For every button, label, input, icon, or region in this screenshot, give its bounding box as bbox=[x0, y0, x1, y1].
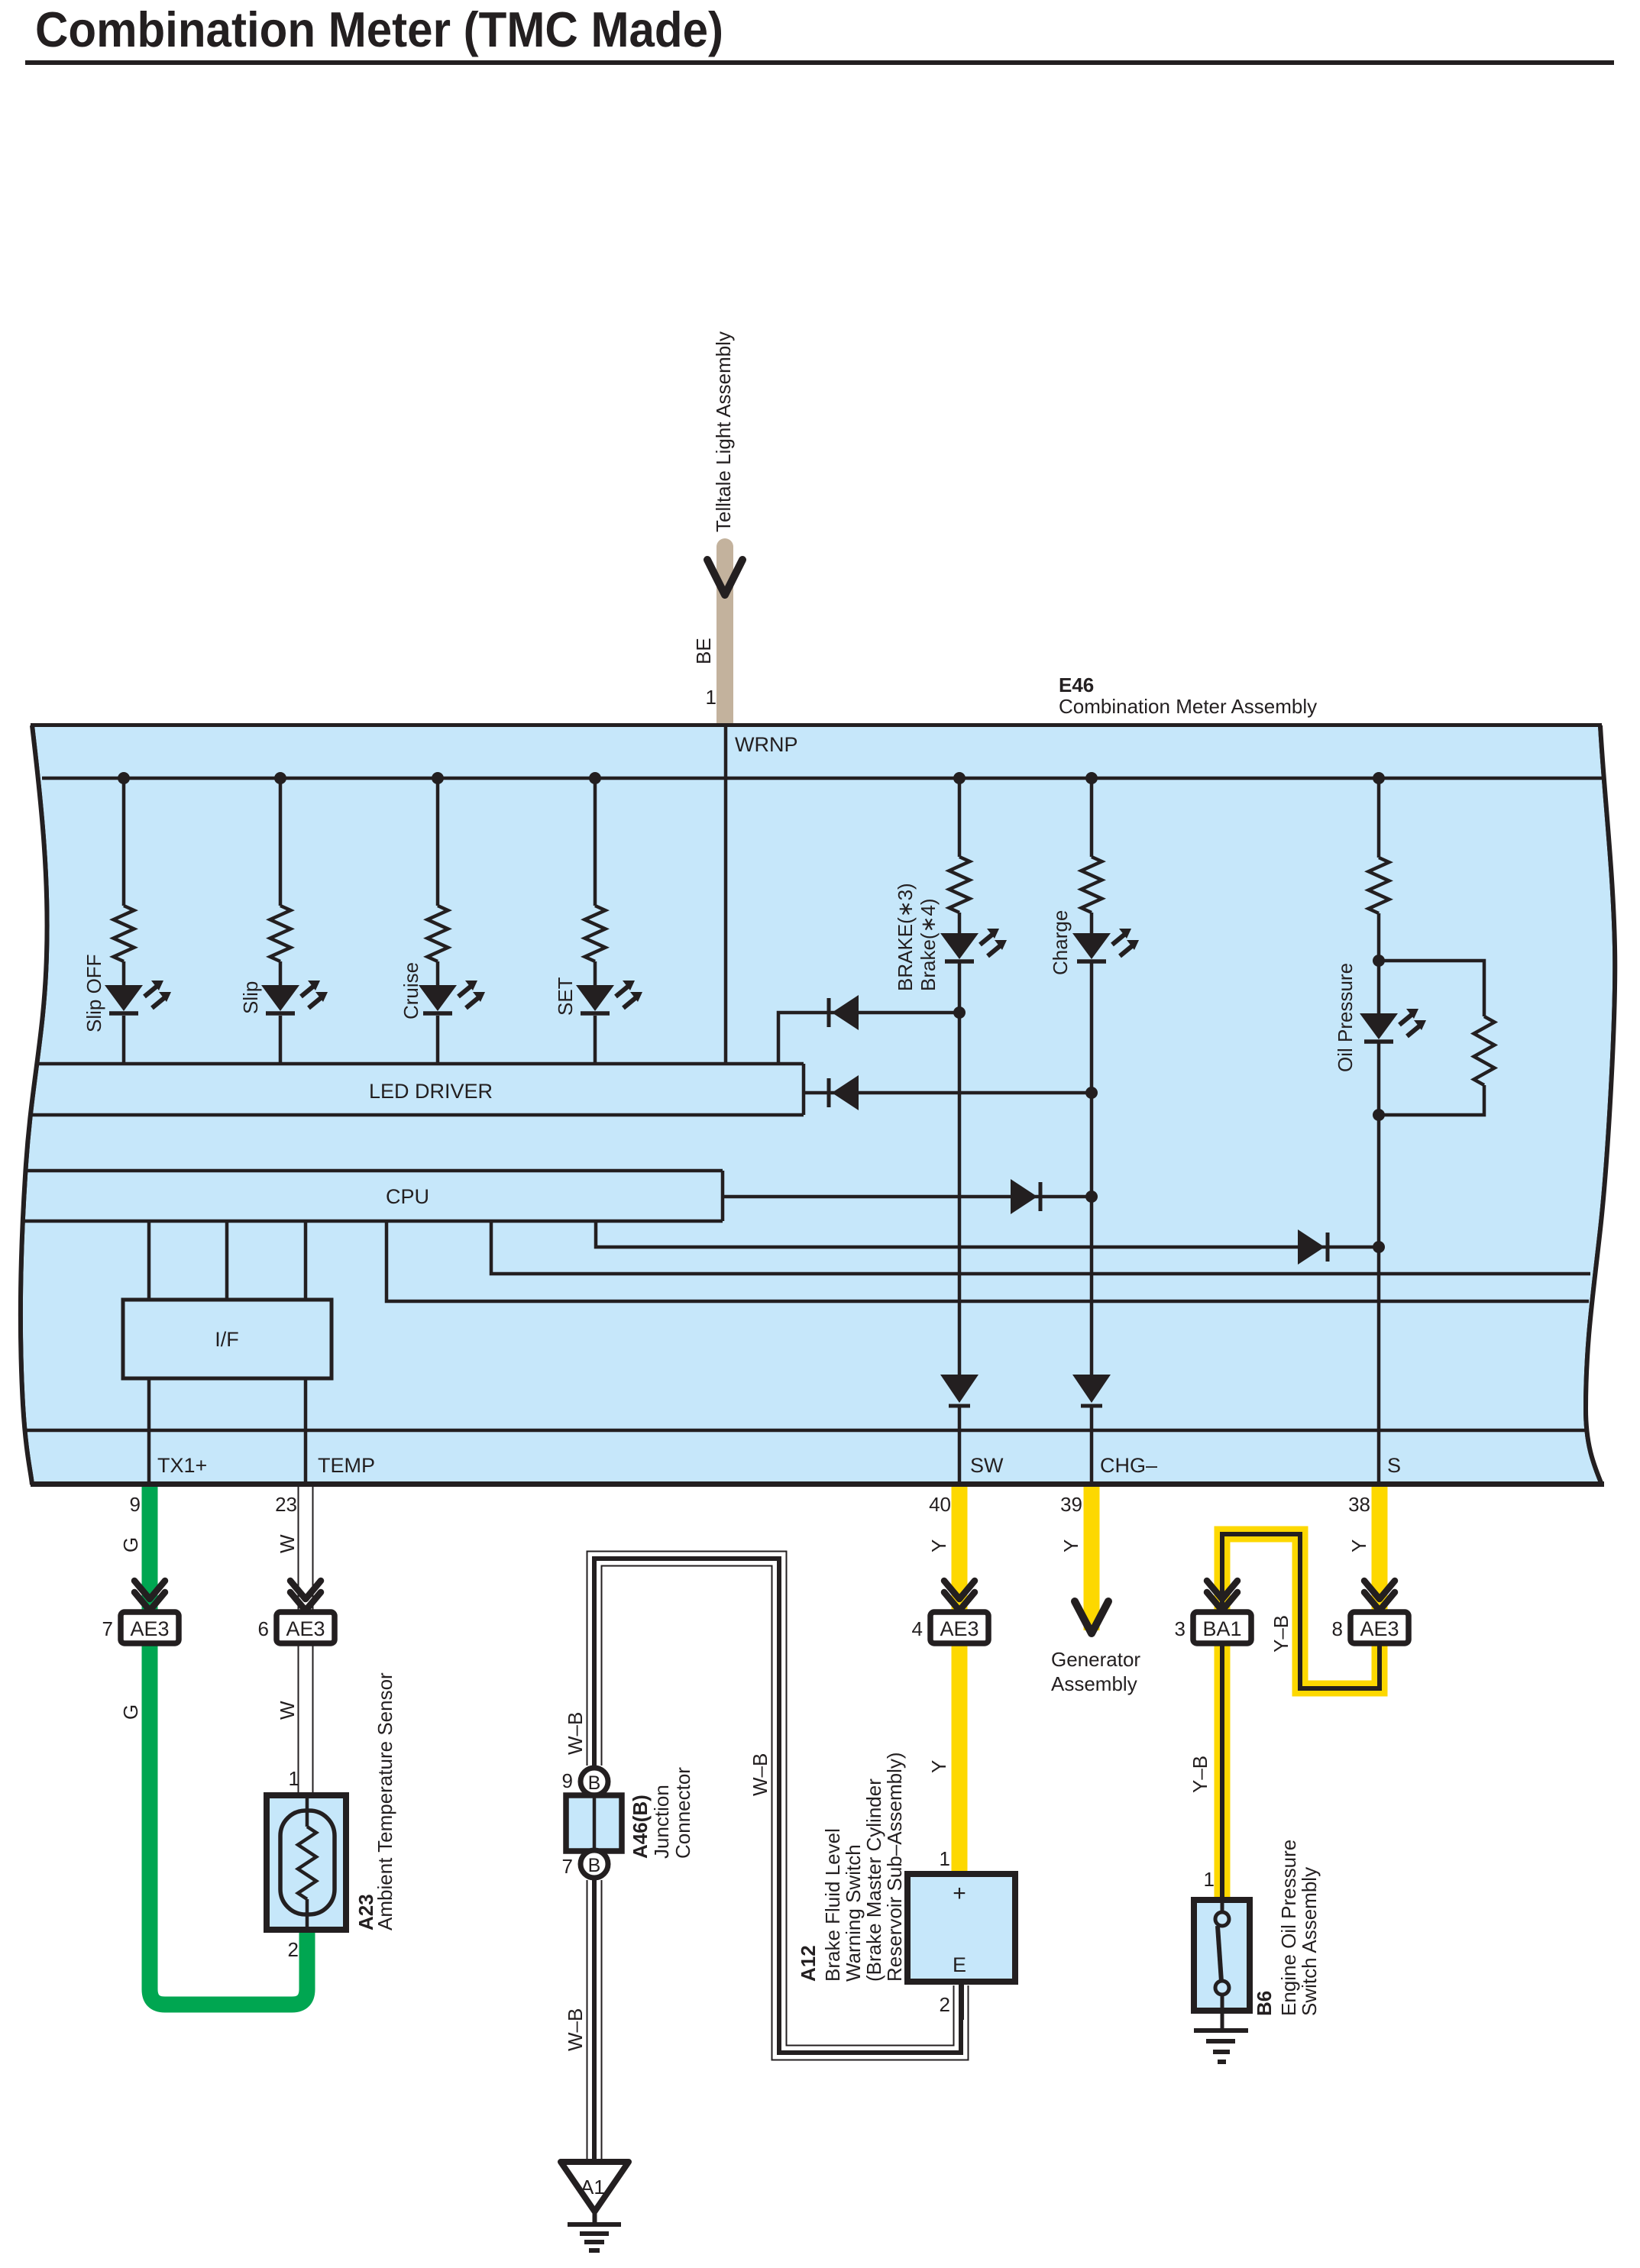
Y-B wire AE3(8) to BA1(3): yellow band bbox=[1222, 1534, 1380, 1688]
connector pass-through chevrons (Y-B BA1 wire) bbox=[1207, 1581, 1237, 1599]
svg-text:S: S bbox=[1387, 1454, 1401, 1477]
svg-text:39: 39 bbox=[1060, 1493, 1082, 1516]
svg-text:Connector: Connector bbox=[671, 1767, 694, 1859]
junction connector A46(B) body bbox=[566, 1795, 622, 1851]
svg-text:1: 1 bbox=[706, 686, 716, 709]
connector AE3 pin6 bbox=[277, 1612, 335, 1643]
diode D3 bbox=[1039, 1182, 1043, 1211]
resistor Charge bbox=[1082, 857, 1102, 913]
svg-text:AE3: AE3 bbox=[940, 1617, 979, 1640]
page-edge trim left bbox=[0, 726, 47, 1484]
resistor Oil Pressure (series) bbox=[1369, 858, 1389, 913]
Y wire from SW to A12 bbox=[952, 1487, 968, 1874]
svg-text:SET: SET bbox=[554, 977, 577, 1016]
A23 ambient temperature sensor box bbox=[267, 1795, 346, 1930]
svg-text:Slip OFF: Slip OFF bbox=[82, 954, 105, 1032]
WRNP vertical wire bbox=[724, 727, 728, 1064]
title underline bbox=[25, 60, 1614, 65]
Y wire from CHG- to generator bbox=[1084, 1487, 1100, 1630]
svg-text:Cruise: Cruise bbox=[399, 962, 422, 1019]
CPU block bbox=[21, 1171, 723, 1221]
A12 brake fluid level warning switch box bbox=[907, 1874, 1015, 1982]
svg-text:I/F: I/F bbox=[215, 1328, 239, 1351]
resistor Slip bbox=[270, 906, 291, 961]
B6 switch lever bbox=[1218, 1926, 1221, 1982]
svg-text:40: 40 bbox=[929, 1493, 951, 1516]
svg-text:Slip: Slip bbox=[239, 981, 262, 1014]
junction dot on bus at BRAKE bbox=[953, 772, 966, 784]
svg-text:38: 38 bbox=[1348, 1493, 1370, 1516]
W-B wire loop: white core bbox=[594, 1559, 961, 2053]
warning lamp branch Slip: wires bbox=[279, 778, 283, 906]
svg-text:SW: SW bbox=[970, 1454, 1004, 1477]
diode D1 bbox=[827, 998, 831, 1027]
svg-text:Combination Meter (TMC Made): Combination Meter (TMC Made) bbox=[35, 2, 723, 57]
W-B wire loop: black stripe bbox=[594, 1559, 961, 2053]
svg-text:AE3: AE3 bbox=[1360, 1617, 1399, 1640]
svg-text:Generator: Generator bbox=[1051, 1648, 1140, 1671]
svg-text:B6: B6 bbox=[1253, 1991, 1276, 2016]
svg-text:1: 1 bbox=[1204, 1868, 1215, 1891]
LED DRIVER block bbox=[23, 1064, 804, 1115]
connector AE3 pin4 bbox=[930, 1612, 988, 1643]
svg-text:Y: Y bbox=[1059, 1539, 1082, 1552]
svg-text:CHG–: CHG– bbox=[1100, 1454, 1157, 1477]
svg-text:A12: A12 bbox=[797, 1945, 820, 1982]
box bottom edge bbox=[31, 1481, 1604, 1487]
wire CPU to I/F pin2 bbox=[225, 1221, 229, 1300]
svg-text:W–B: W–B bbox=[564, 1712, 587, 1755]
LED Slip bbox=[261, 985, 299, 1011]
svg-text:7: 7 bbox=[562, 1855, 573, 1878]
LED SET bbox=[576, 985, 614, 1011]
svg-text:(Brake Master Cylinder: (Brake Master Cylinder bbox=[862, 1779, 885, 1982]
svg-text:TEMP: TEMP bbox=[318, 1454, 375, 1477]
svg-text:9: 9 bbox=[130, 1493, 141, 1516]
warning lamp branch Oil Pressure: wires bbox=[1377, 778, 1381, 858]
warning lamp branch Slip OFF: wires bbox=[122, 778, 126, 906]
connector pass-through chevrons (Y SW wire) bbox=[944, 1581, 975, 1599]
ground A1 stem bbox=[593, 2211, 597, 2224]
svg-text:Assembly: Assembly bbox=[1051, 1672, 1137, 1695]
svg-text:Brake Fluid Level: Brake Fluid Level bbox=[821, 1828, 844, 1982]
box right curved edge bbox=[1586, 725, 1615, 1485]
svg-text:8: 8 bbox=[1332, 1617, 1343, 1640]
svg-text:Switch Assembly: Switch Assembly bbox=[1298, 1867, 1321, 2016]
svg-text:2: 2 bbox=[288, 1938, 299, 1961]
LED BRAKE bbox=[940, 933, 979, 959]
Y-B wire BA1(3) to B6: black stripe bbox=[1220, 1643, 1224, 1900]
A23 capsule bbox=[280, 1811, 335, 1914]
svg-text:W: W bbox=[276, 1701, 299, 1720]
svg-text:CPU: CPU bbox=[386, 1185, 429, 1208]
svg-text:Ambient Temperature Sensor: Ambient Temperature Sensor bbox=[374, 1672, 396, 1930]
W wire core bbox=[299, 1487, 312, 1795]
svg-text:+: + bbox=[953, 1881, 966, 1906]
diode D2 bbox=[827, 1078, 831, 1107]
box top edge (restroke) bbox=[31, 723, 1602, 727]
resistor Slip OFF bbox=[114, 906, 134, 961]
box top edge bbox=[31, 723, 1602, 727]
A12 E stub wire bbox=[959, 1982, 964, 2020]
svg-text:W–B: W–B bbox=[749, 1753, 771, 1796]
svg-text:6: 6 bbox=[258, 1617, 269, 1640]
svg-text:BE: BE bbox=[692, 638, 715, 664]
connector AE3 pin7 bbox=[121, 1612, 179, 1643]
svg-text:G: G bbox=[119, 1704, 142, 1720]
parallel resistor zigzag bbox=[1474, 1016, 1495, 1085]
svg-text:Y: Y bbox=[1347, 1539, 1370, 1552]
wire CPU to I/F pin3 bbox=[304, 1221, 308, 1300]
W-B wire loop A12(E) to junction connector: outline bbox=[594, 1559, 961, 2053]
W wire from TEMP to A23 pin1 (outline) bbox=[298, 1487, 314, 1795]
B6 ground bars bbox=[1194, 2028, 1248, 2033]
connector pass-through chevrons (W wire) bbox=[290, 1581, 321, 1599]
svg-text:A46(B): A46(B) bbox=[629, 1795, 652, 1859]
warning lamp branch SET: wires bbox=[594, 778, 597, 906]
junction connector A46(B) circle pin7 bbox=[581, 1850, 608, 1878]
G wire from TX1+ to A23 pin2 bbox=[150, 1487, 307, 2005]
B6 switch top contact bbox=[1215, 1912, 1229, 1926]
LED Slip OFF bbox=[105, 985, 143, 1011]
Y wire from S to AE3(8) bbox=[1372, 1487, 1388, 1615]
WRNP bus wire (horizontal) bbox=[42, 777, 1606, 780]
svg-text:3: 3 bbox=[1175, 1617, 1186, 1640]
B6 switch stub below bbox=[1221, 1995, 1224, 2008]
svg-text:Y–B: Y–B bbox=[1189, 1756, 1211, 1793]
svg-text:B: B bbox=[588, 1772, 601, 1794]
svg-text:A1: A1 bbox=[581, 2176, 605, 2199]
box left curved edge bbox=[21, 725, 47, 1485]
page-edge trim right bbox=[1586, 726, 1640, 1484]
svg-text:Y–B: Y–B bbox=[1270, 1615, 1292, 1653]
svg-text:7: 7 bbox=[102, 1617, 113, 1640]
svg-text:AE3: AE3 bbox=[130, 1617, 169, 1640]
combination meter assembly box E46 body bbox=[21, 725, 1615, 1485]
connector pass-through chevrons (Y S wire) bbox=[1364, 1581, 1395, 1599]
CPU step wire to internal line B bbox=[387, 1221, 1589, 1301]
A23 internal resistor bbox=[298, 1827, 316, 1899]
svg-text:1: 1 bbox=[289, 1767, 299, 1790]
ground A1 triangle bbox=[561, 2162, 629, 2211]
junction dot CHG-/D3 bbox=[1085, 1191, 1098, 1203]
box left curved edge (restroke) bbox=[21, 725, 47, 1485]
LED Oil Pressure bbox=[1360, 1013, 1398, 1039]
svg-text:Brake(∗4): Brake(∗4) bbox=[917, 899, 940, 991]
W-B wire to ground: black stripe bbox=[592, 1880, 597, 2161]
junction dot on bus at Cruise bbox=[432, 772, 444, 784]
connector AE3 pin8 bbox=[1350, 1612, 1409, 1643]
junction connector A46(B) circle pin9 bbox=[581, 1768, 608, 1795]
svg-text:Combination Meter Assembly: Combination Meter Assembly bbox=[1059, 695, 1317, 718]
diode D4 (CPU step to S column) bbox=[1326, 1233, 1330, 1262]
Y-B wire BA1(3) to B6: yellow band bbox=[1215, 1643, 1231, 1900]
junction dot on bus at Oil Pressure bbox=[1373, 772, 1385, 784]
W-B wire to ground: white core bbox=[588, 1880, 601, 2161]
svg-text:4: 4 bbox=[912, 1617, 923, 1640]
diode D5 (SW column, pointing down) bbox=[940, 1375, 979, 1403]
svg-text:Warning Switch: Warning Switch bbox=[842, 1844, 865, 1982]
svg-text:LED DRIVER: LED DRIVER bbox=[369, 1080, 493, 1103]
junction dot Charge/D2 bbox=[1085, 1087, 1098, 1099]
ground A1 bars bbox=[568, 2222, 621, 2227]
svg-text:WRNP: WRNP bbox=[735, 733, 798, 756]
Y-B wire AE3(8) to BA1(3): black stripe bbox=[1222, 1534, 1380, 1688]
svg-text:TX1+: TX1+ bbox=[157, 1454, 207, 1477]
telltale BE wire bbox=[716, 547, 733, 723]
svg-text:E46: E46 bbox=[1059, 674, 1094, 696]
wire I/F to TEMP terminal bbox=[304, 1378, 308, 1481]
svg-text:Oil Pressure: Oil Pressure bbox=[1334, 963, 1357, 1072]
svg-text:Junction: Junction bbox=[650, 1785, 673, 1859]
box bottom edge (restroke) bbox=[31, 1481, 1604, 1487]
svg-text:9: 9 bbox=[562, 1769, 573, 1792]
telltale arrow chevron bbox=[707, 560, 742, 595]
diode D2 (LED DRIVER right to Charge column) wire bbox=[805, 1091, 1092, 1095]
A23 internal wire bbox=[306, 1798, 309, 1827]
svg-text:Charge: Charge bbox=[1049, 910, 1072, 975]
warning lamp branch BRAKE: wires bbox=[958, 778, 962, 857]
LED Cruise bbox=[419, 985, 457, 1011]
junction dot on bus at Slip bbox=[274, 772, 286, 784]
svg-text:2: 2 bbox=[940, 1993, 950, 2016]
CPU step wire to diode row 4 bbox=[596, 1221, 1379, 1247]
box right curved edge (restroke) bbox=[1586, 725, 1615, 1485]
svg-text:Y: Y bbox=[927, 1539, 950, 1552]
svg-text:Y: Y bbox=[927, 1760, 950, 1773]
svg-text:E: E bbox=[953, 1953, 966, 1976]
diode D3 (CPU right to CHG- column) wire bbox=[724, 1195, 1092, 1199]
W-B wire junction connector to ground A1: outline bbox=[587, 1880, 603, 2163]
svg-text:1: 1 bbox=[940, 1847, 950, 1870]
warning lamp branch Cruise: wires bbox=[436, 778, 440, 906]
resistor Cruise bbox=[428, 906, 448, 961]
svg-text:W–B: W–B bbox=[564, 2008, 587, 2051]
diode D1 (LED DRIVER top to BRAKE column) wire bbox=[778, 1013, 959, 1064]
resistor SET bbox=[585, 906, 606, 961]
parallel resistor branch around Oil Pressure LED bbox=[1379, 961, 1484, 1115]
junction dot bottom of parallel branch bbox=[1373, 1109, 1385, 1121]
svg-text:BRAKE(∗3): BRAKE(∗3) bbox=[894, 883, 917, 991]
junction dot on bus at SET bbox=[589, 772, 601, 784]
B6 engine oil pressure switch box bbox=[1194, 1900, 1250, 2011]
I/F block bbox=[123, 1300, 332, 1378]
svg-text:BA1: BA1 bbox=[1202, 1617, 1241, 1640]
generator assembly arrow bbox=[1075, 1601, 1108, 1633]
B6 ground wire bbox=[1221, 2011, 1224, 2031]
wire I/F to TX1+ terminal bbox=[147, 1378, 151, 1481]
warning lamp branch Charge: wires bbox=[1090, 778, 1094, 857]
svg-text:Engine Oil Pressure: Engine Oil Pressure bbox=[1277, 1840, 1300, 2016]
connector pass-through chevrons (G wire) bbox=[134, 1581, 165, 1599]
CPU step wire to internal line A bbox=[491, 1221, 1590, 1274]
connector BA1 pin3 bbox=[1193, 1612, 1251, 1643]
B6 switch stub above bbox=[1221, 1903, 1224, 1912]
svg-text:W: W bbox=[276, 1534, 299, 1553]
junction dot S/D4 bbox=[1373, 1241, 1385, 1253]
resistor BRAKE bbox=[949, 857, 970, 913]
svg-text:B: B bbox=[588, 1855, 601, 1876]
svg-text:G: G bbox=[119, 1537, 142, 1552]
wire CPU to I/F pin1 bbox=[147, 1221, 151, 1300]
svg-text:Reservoir Sub–Assembly): Reservoir Sub–Assembly) bbox=[883, 1752, 906, 1982]
junction dot on bus at Slip OFF bbox=[118, 772, 130, 784]
junction connector divider bbox=[593, 1795, 597, 1851]
diode D6 (CHG- column, pointing down) bbox=[1072, 1375, 1111, 1403]
terminal strip top line bbox=[24, 1429, 1587, 1433]
svg-text:Telltale Light Assembly: Telltale Light Assembly bbox=[712, 331, 735, 532]
LED Charge bbox=[1072, 933, 1111, 959]
junction dot on bus at Charge bbox=[1085, 772, 1098, 784]
junction dot top of parallel branch bbox=[1373, 955, 1385, 967]
junction dot BRAKE/D1 bbox=[953, 1006, 966, 1019]
B6 switch bottom contact bbox=[1215, 1981, 1229, 1995]
svg-text:AE3: AE3 bbox=[286, 1617, 325, 1640]
svg-text:23: 23 bbox=[275, 1493, 297, 1516]
